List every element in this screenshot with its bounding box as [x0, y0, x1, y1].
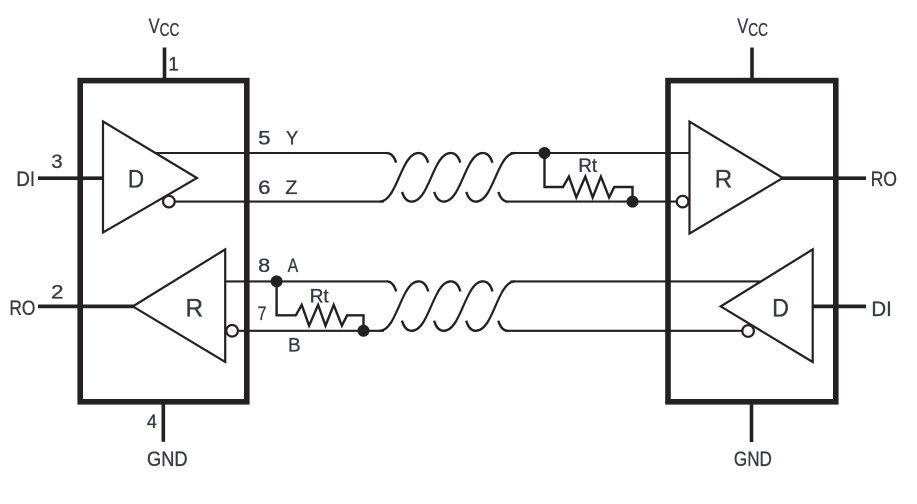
receiver R (right box) — [690, 122, 783, 234]
wire Y row: left segment from driver to twist — [155, 152, 388, 154]
wire B row: right segment from twist to driver bubble — [505, 330, 742, 332]
VCC label right — [737, 14, 768, 40]
resistor Rt (top, near right box) — [545, 153, 633, 202]
wire Z row: left segment from driver bubble to twist — [175, 201, 385, 203]
twisted pair top: wires — [380, 153, 515, 202]
transceiver box U2 (right) — [668, 81, 836, 402]
junction dot on Y wire — [539, 147, 551, 159]
driver D (left box) — [103, 122, 197, 233]
inversion bubble on right driver output B — [742, 325, 754, 337]
svg-text:GND: GND — [147, 447, 188, 471]
wire B row: left segment from receiver bubble to twist — [238, 330, 384, 332]
DI input wire right — [813, 305, 866, 309]
VCC pin stub left (pin 1) — [163, 48, 167, 80]
inversion bubble on left driver output Z — [163, 196, 175, 208]
wire A row: right segment from twist to driver — [511, 280, 762, 282]
wire Z row: right segment from twist to receiver bubble — [505, 201, 677, 203]
svg-text:V: V — [149, 14, 161, 38]
svg-text:Z: Z — [285, 177, 297, 199]
transceiver box U1 (left) — [80, 81, 247, 402]
svg-text:DI: DI — [16, 167, 35, 191]
GND pin stub right — [750, 403, 754, 442]
svg-text:Rt: Rt — [578, 156, 598, 177]
svg-text:RO: RO — [9, 296, 35, 320]
svg-text:4: 4 — [147, 412, 157, 433]
svg-text:5: 5 — [258, 129, 270, 150]
svg-text:2: 2 — [51, 282, 63, 303]
wire Y row: right segment from twist to receiver — [511, 152, 690, 154]
RO output wire right — [782, 176, 866, 180]
svg-text:CC: CC — [160, 19, 180, 40]
svg-text:6: 6 — [258, 178, 270, 199]
junction dot on Z wire — [627, 196, 639, 208]
resistor Rt (bottom, near left box) — [277, 281, 364, 330]
svg-text:CC: CC — [748, 19, 768, 40]
driver D (right box) — [721, 249, 813, 362]
receiver R (left box) — [133, 249, 225, 362]
svg-text:3: 3 — [51, 152, 62, 173]
svg-text:GND: GND — [734, 447, 772, 471]
svg-text:7: 7 — [258, 304, 267, 325]
inversion bubble on left receiver input B — [226, 325, 238, 337]
twisted pair bottom: wires — [380, 281, 515, 330]
svg-text:D: D — [772, 294, 789, 322]
RO output wire left (pin 2) — [38, 305, 134, 309]
svg-text:A: A — [288, 255, 299, 277]
junction dot on A wire — [271, 275, 283, 287]
inversion bubble on right receiver input Z — [677, 196, 689, 208]
junction dot on B wire — [358, 325, 370, 337]
wire A row: left segment from receiver to twist — [225, 280, 388, 282]
svg-text:RO: RO — [871, 167, 897, 191]
svg-text:Y: Y — [286, 128, 298, 150]
svg-text:R: R — [186, 294, 204, 322]
svg-text:R: R — [715, 165, 733, 193]
GND pin stub left (pin 4) — [162, 403, 166, 442]
VCC label left — [149, 14, 180, 40]
svg-text:D: D — [128, 165, 144, 193]
svg-text:B: B — [288, 334, 301, 356]
svg-text:V: V — [737, 14, 749, 38]
DI input wire left (pin 3) — [38, 176, 103, 180]
svg-text:1: 1 — [168, 55, 179, 76]
VCC pin stub right — [750, 48, 754, 80]
svg-text:Rt: Rt — [310, 287, 330, 308]
svg-text:DI: DI — [871, 297, 891, 321]
svg-text:8: 8 — [258, 256, 270, 277]
